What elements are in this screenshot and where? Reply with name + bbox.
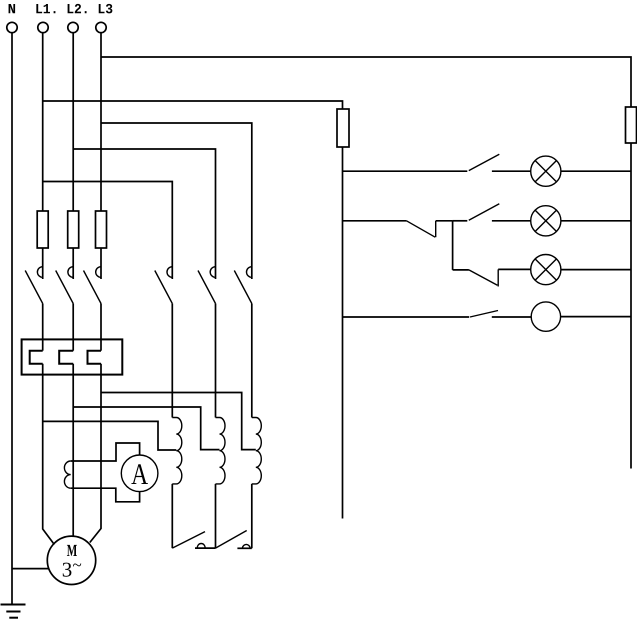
contactor main contact KM phase L2 [56, 267, 73, 304]
wire left lamp bus vertical [342, 147, 344, 519]
selector switch SA cell 1 contact arc [197, 544, 205, 549]
wire L2 contact to relay [72, 304, 74, 351]
contactor main contact KM phase L3 [84, 267, 102, 304]
terminal L1 [38, 22, 48, 32]
lamp row 2 right lead [492, 220, 531, 222]
lamp EL1 [531, 156, 561, 186]
wire node row2 down to row3 [452, 221, 454, 270]
terminal L2 [68, 22, 78, 32]
svg-text:A: A [131, 458, 148, 491]
meter element 1 feed wire [171, 304, 173, 418]
NC contact row 2 blade [407, 221, 436, 237]
svg-text:3: 3 [62, 557, 73, 581]
selector switch SA cell 2 contact arc [242, 544, 250, 548]
wire branch L3 to right fuse [101, 57, 631, 107]
fuse FU2 [68, 211, 79, 248]
wire L3 fuse to contact [100, 248, 102, 279]
wire L3 contact to relay [100, 304, 102, 351]
lamp row 3 wire to bus [561, 269, 631, 271]
NC contact row 3 blade [469, 270, 498, 285]
wire branch L3 to meter element 3 [101, 123, 252, 279]
wire L1 fuse to contact [42, 248, 44, 279]
lamp row 4 wire to bus [561, 316, 631, 318]
fuse FU3 [96, 211, 107, 248]
lamp row 2 left wire [343, 220, 407, 222]
bell HA [531, 302, 560, 331]
wire L2 fuse to contact [72, 248, 74, 279]
meter element 3 coil [252, 418, 262, 484]
selector switch SA cell 1 pad [195, 547, 216, 549]
wire take-off L1 to element 1 coil mid [43, 421, 177, 450]
wire right lamp bus vertical [630, 143, 632, 469]
thermal overload relay FR body [22, 339, 123, 374]
wire L1 vertical upper [42, 33, 44, 211]
ammeter PA [121, 455, 158, 492]
current transformer TA on L2 secondary coil [64, 461, 70, 488]
lamp row 1 wire to bus [561, 170, 631, 172]
contactor contact meter line 3 [234, 267, 252, 304]
relay FR heater element phase L1 [30, 351, 43, 364]
fuse FU1 [37, 211, 48, 248]
wire L3 relay to motor [90, 364, 101, 543]
wire L1 contact to relay [42, 304, 44, 351]
wire take-off L2 to element 2 coil mid [73, 407, 219, 450]
lamp row 2 wire to bus [561, 220, 631, 222]
meter element 2 coil [216, 418, 226, 484]
meter element 3 feed wire [251, 304, 253, 418]
wire N vertical [11, 33, 13, 604]
meter element 2 feed wire [215, 304, 217, 418]
wire branch L1 to left fuse [43, 101, 343, 109]
NC contact row 3 hook [497, 269, 499, 286]
relay FR heater element phase L3 [88, 351, 102, 364]
wire row 2 node to switch [453, 220, 468, 222]
meter element 2 lower wire [215, 484, 217, 548]
lamp EL3 [531, 255, 561, 285]
meter element 3 lower wire [251, 484, 253, 548]
switch S1 blade [469, 154, 500, 170]
lamp row 1 left wire [343, 170, 468, 172]
contactor contact meter line 2 [198, 267, 216, 304]
wire take-off L3 to element 3 coil mid [101, 393, 256, 450]
fuse FU4 (left lighting fuse) [337, 109, 349, 147]
switch S2 blade [469, 204, 500, 220]
meter element 1 coil [172, 418, 182, 484]
switch S4 blade [470, 311, 498, 318]
lamp EL2 [531, 206, 561, 236]
lamp row 4 right lead [492, 316, 531, 318]
wire N to motor [12, 568, 49, 570]
wire L1 relay to motor [43, 364, 55, 545]
wire L3 vertical upper [100, 33, 102, 211]
selector switch SA cell 2 pad [237, 547, 251, 549]
svg-text:N: N [8, 2, 16, 18]
wire branch L1 to meter element 1 [43, 182, 173, 280]
wire branch L2 to meter element 2 [73, 149, 215, 279]
wire L2 relay to motor [72, 364, 74, 537]
fuse FU5 (right lighting fuse) [626, 107, 637, 143]
lamp row 3 right lead [498, 268, 531, 270]
selector switch SA cell 2 blade [216, 531, 247, 549]
svg-text:~: ~ [72, 556, 81, 575]
wire TA top to ammeter [71, 443, 140, 461]
terminal L3 [96, 22, 106, 32]
meter element 1 lower wire [171, 484, 173, 548]
motor M circle [47, 536, 95, 584]
lamp row 4 left wire [343, 316, 470, 318]
ground [1, 605, 26, 618]
wire row 2 node [436, 220, 453, 222]
wire TA bottom to ammeter [71, 488, 140, 502]
contactor contact meter line 1 [155, 267, 173, 304]
lamp row 1 right lead [492, 170, 531, 172]
relay FR heater element phase L2 [59, 351, 73, 364]
selector switch SA cell 1 blade [172, 532, 205, 549]
lamp row 3 left lead [453, 269, 469, 271]
NC contact row 2 hook [435, 221, 437, 237]
terminal N [7, 22, 17, 32]
svg-text:L1. L2. L3: L1. L2. L3 [35, 2, 113, 18]
contactor main contact KM phase L1 [25, 267, 43, 304]
wire L2 vertical upper [72, 33, 74, 211]
